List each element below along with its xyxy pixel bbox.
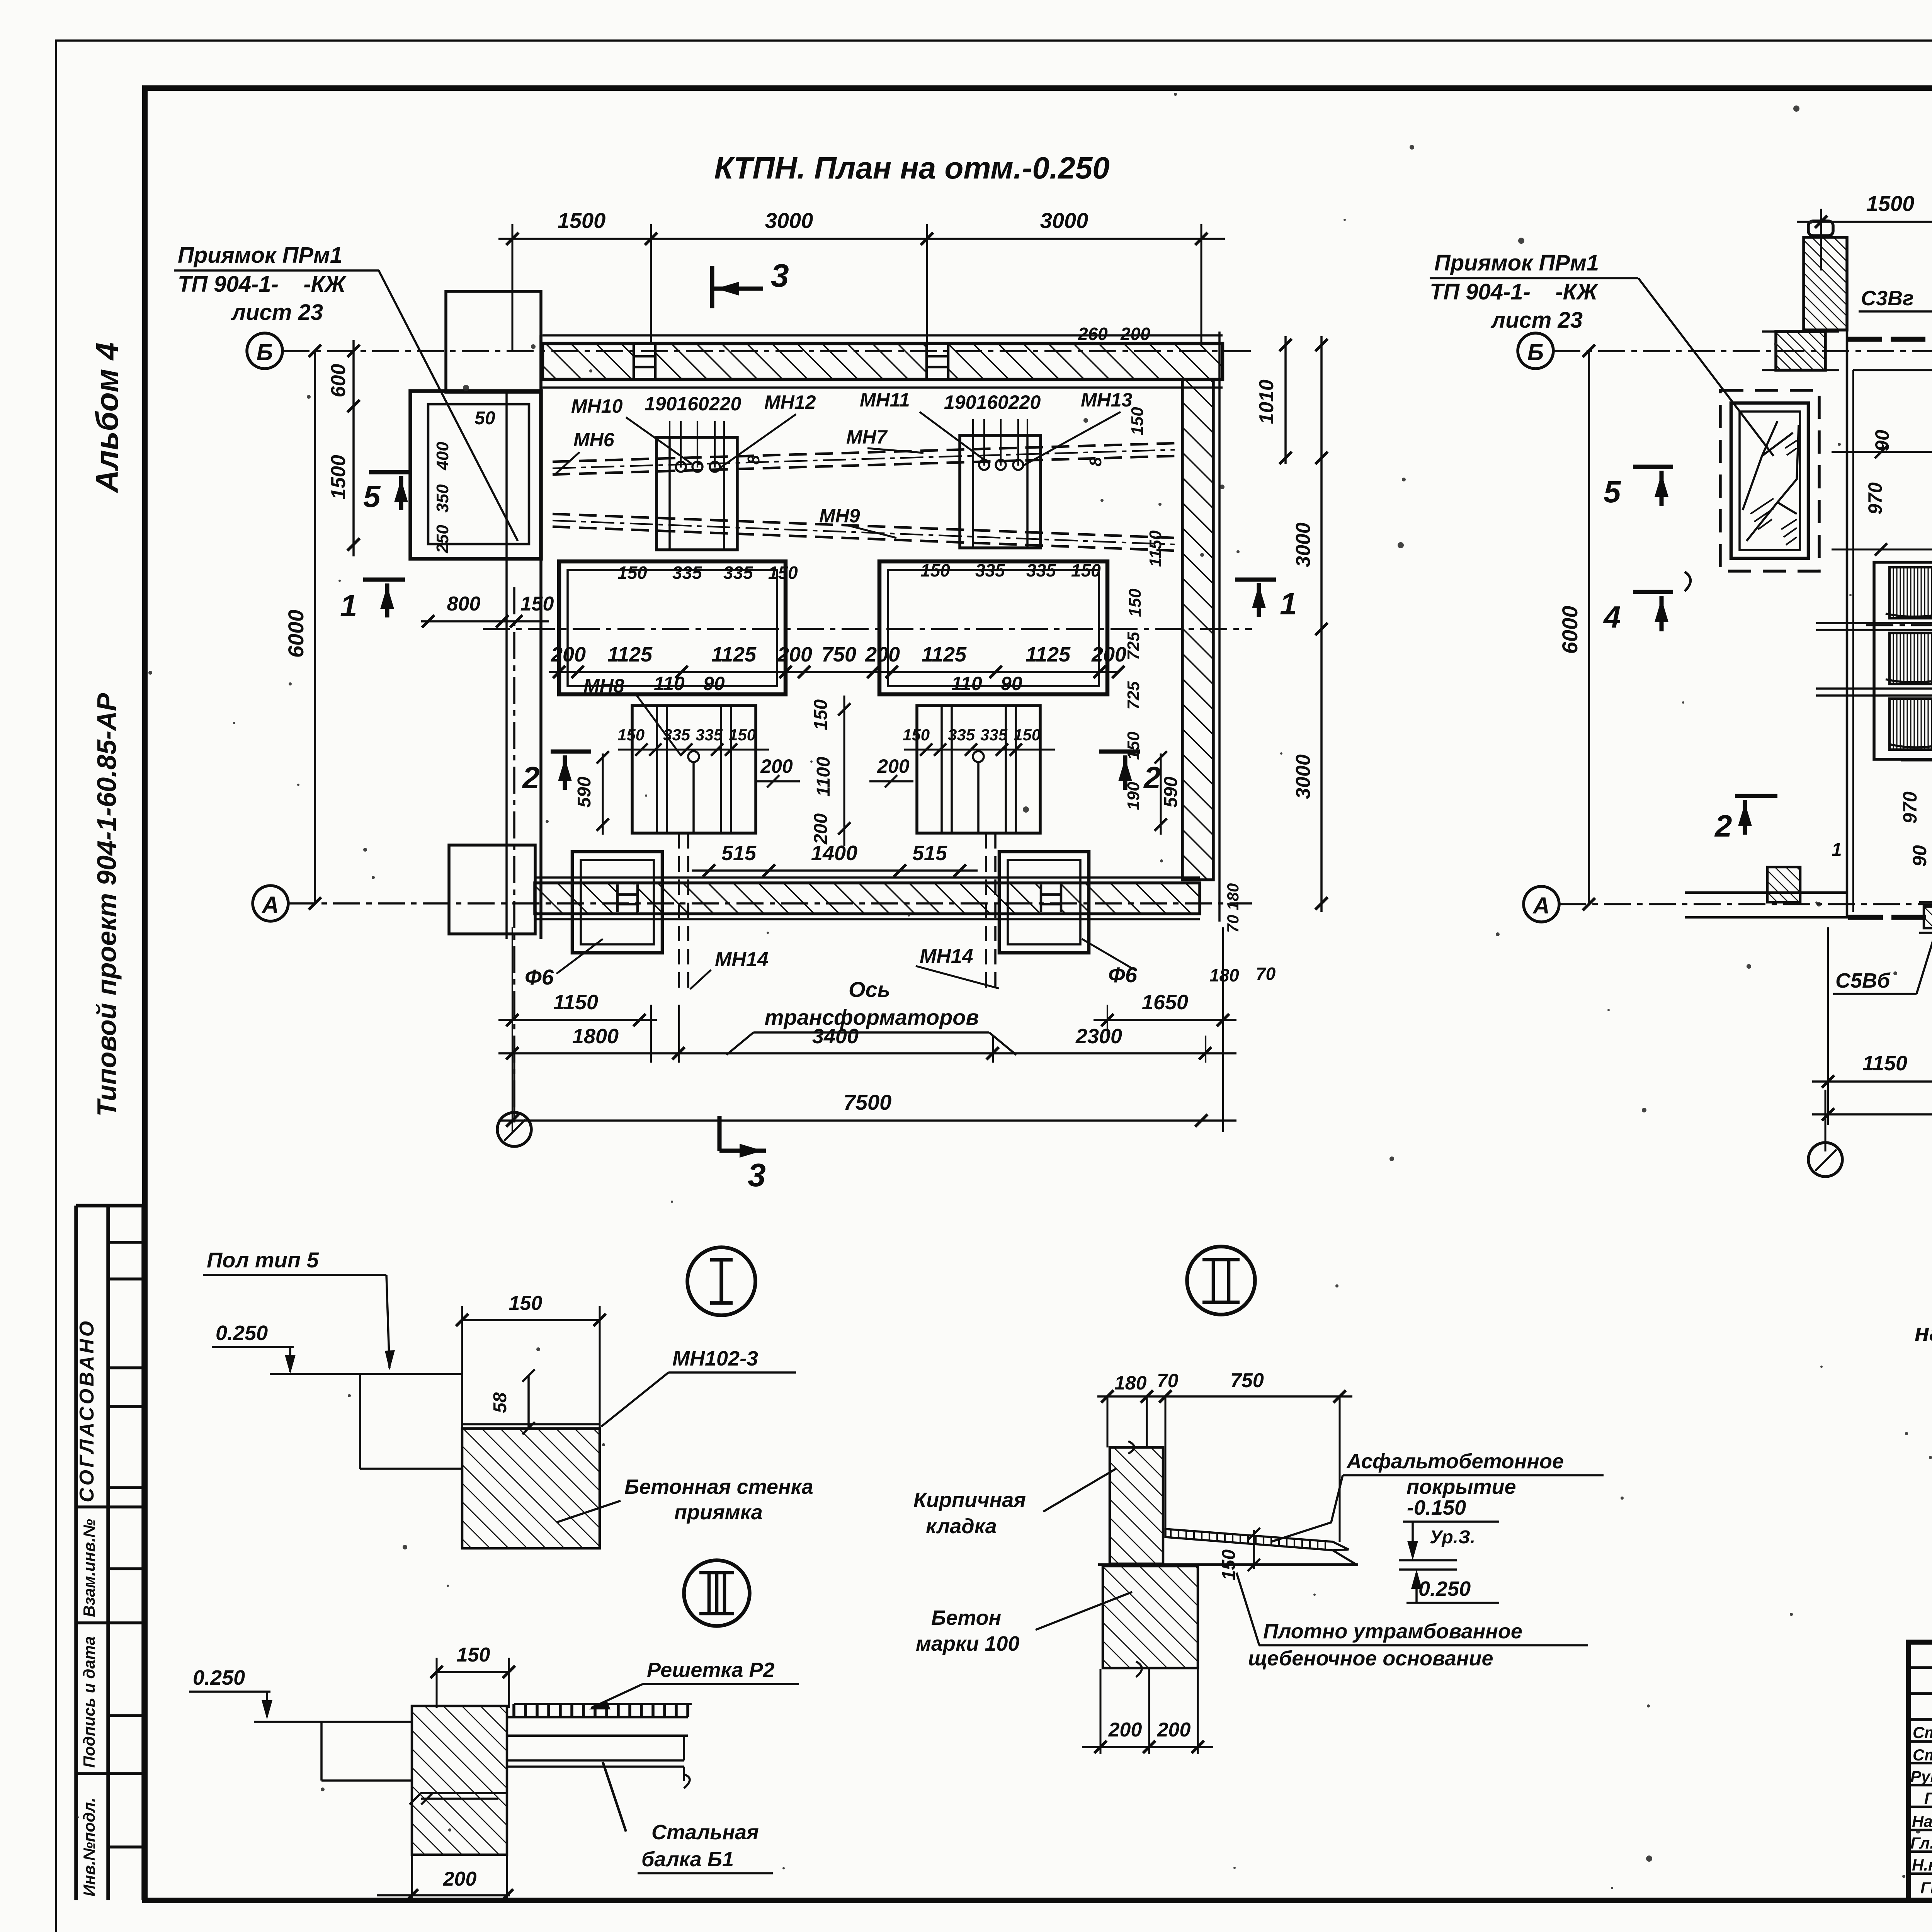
axis Б circle and line <box>247 333 282 369</box>
svg-text:190160220: 190160220 <box>645 393 741 415</box>
svg-text:800: 800 <box>447 593 481 615</box>
svg-text:150: 150 <box>1128 407 1147 435</box>
svg-text:50: 50 <box>474 408 495 429</box>
right wall hatched band <box>1182 379 1213 880</box>
svg-text:8: 8 <box>1086 457 1105 466</box>
top wall hatched band <box>543 344 1223 379</box>
svg-text:1500: 1500 <box>558 208 606 233</box>
svg-text:марки 100: марки 100 <box>916 1632 1019 1655</box>
right side dim chain 1010 <box>1284 336 1287 464</box>
detail I floor level line <box>270 1373 462 1375</box>
svg-text:6000: 6000 <box>284 610 308 658</box>
svg-text:3000: 3000 <box>1292 754 1315 799</box>
svg-text:110: 110 <box>951 673 982 694</box>
svg-text:58: 58 <box>490 1392 510 1413</box>
detail I dim 150 <box>462 1319 600 1321</box>
svg-text:2: 2 <box>1143 760 1161 795</box>
svg-text:1: 1 <box>1280 587 1297 621</box>
svg-text:150: 150 <box>1126 588 1145 617</box>
detail II foundation hatched <box>1103 1566 1198 1668</box>
detail II dims 200 200 <box>1082 1746 1213 1748</box>
bottom dims 1150/4700/1650 <box>1812 1080 1932 1083</box>
svg-text:1150: 1150 <box>553 991 598 1014</box>
grating group 1 outline <box>1874 562 1932 759</box>
detail III dim 150 <box>437 1671 509 1673</box>
svg-text:3000: 3000 <box>1040 208 1088 233</box>
svg-text:970: 970 <box>1899 791 1921 824</box>
small vertical tick dims on frames <box>670 419 1027 468</box>
section marker 3 top <box>712 266 763 308</box>
svg-text:90: 90 <box>1871 430 1893 451</box>
detail I step lines <box>360 1374 462 1469</box>
section marker 2 left right-plan <box>1735 796 1777 835</box>
extension lines top dims <box>512 224 1201 350</box>
svg-text:Ф6: Ф6 <box>525 965 554 989</box>
svg-text:3000: 3000 <box>1292 522 1315 567</box>
svg-text:КТПН. План на отм.-0.250: КТПН. План на отм.-0.250 <box>714 151 1109 185</box>
left margin stamp table bottom (Взам.инв., Подпись и дата, Инв.подл.) <box>76 1569 143 1847</box>
bottom left block rect <box>449 845 535 934</box>
svg-text:-0.150: -0.150 <box>1407 1496 1466 1519</box>
axis Б right plan <box>1518 333 1553 369</box>
svg-text:Стальная: Стальная <box>651 1821 759 1844</box>
svg-text:А: А <box>1532 893 1549 918</box>
svg-text:70: 70 <box>1157 1370 1179 1391</box>
dim row 515/1400/515 <box>692 869 978 872</box>
svg-text:2: 2 <box>1714 809 1732 843</box>
section marker 2 right <box>1099 752 1140 790</box>
detail I circle <box>687 1247 755 1315</box>
bottom dim 7500 right plan <box>1812 1113 1932 1116</box>
axis А circle and line <box>253 886 288 921</box>
fence bottom dashed <box>1848 915 1932 920</box>
svg-text:90: 90 <box>1909 845 1930 867</box>
section marker 3 bottom <box>719 1116 766 1151</box>
wall joint marks top wall <box>634 345 655 378</box>
detail III top line <box>254 1721 412 1723</box>
section marker 5 right plan left side <box>1633 467 1673 506</box>
dim 90 and 970 left <box>1832 451 1932 453</box>
grating panels group1 <box>1889 567 1932 618</box>
svg-text:Бетон: Бетон <box>931 1606 1001 1629</box>
svg-text:МН14: МН14 <box>715 948 769 971</box>
svg-text:1125: 1125 <box>607 643 653 666</box>
svg-text:лист 23: лист 23 <box>1490 308 1583 333</box>
lower rails МН9 dashed <box>553 514 1175 551</box>
wall joint marks bottom wall <box>617 884 638 912</box>
svg-text:725: 725 <box>1124 632 1143 660</box>
detail II asphalt wedge <box>1165 1529 1349 1550</box>
svg-text:515: 515 <box>721 842 757 865</box>
svg-text:200: 200 <box>1091 643 1126 666</box>
svg-text:Ст.инж.: Ст.инж. <box>1913 1746 1932 1764</box>
fence posts bottom <box>1924 906 1932 928</box>
svg-text:200: 200 <box>811 813 831 845</box>
svg-text:балка Б1: балка Б1 <box>641 1848 734 1871</box>
extension verticals bottom right plan <box>1828 927 1932 1125</box>
svg-text:180: 180 <box>1114 1372 1147 1394</box>
svg-text:лист 23: лист 23 <box>231 300 323 325</box>
svg-text:1150: 1150 <box>1146 530 1165 567</box>
section marker 1 left <box>363 580 405 617</box>
svg-text:335: 335 <box>723 563 753 583</box>
svg-text:кладка: кладка <box>926 1515 997 1538</box>
bottom dim row2 1800/3400/2300 <box>498 1052 1236 1054</box>
svg-text:Ур.З.: Ур.З. <box>1430 1527 1475 1548</box>
svg-text:ГАП: ГАП <box>1924 1789 1932 1807</box>
detail II ground line <box>1098 1563 1358 1566</box>
svg-text:Плотно утрамбованное: Плотно утрамбованное <box>1263 1620 1522 1643</box>
svg-text:1400: 1400 <box>811 842 857 865</box>
block Ф6 right <box>999 852 1089 953</box>
svg-text:150: 150 <box>903 726 930 744</box>
svg-text:150: 150 <box>1219 1549 1239 1580</box>
svg-text:Н.контр.: Н.контр. <box>1912 1856 1932 1874</box>
svg-text:Кирпичная: Кирпичная <box>913 1488 1026 1512</box>
dim 800/150 <box>421 620 549 622</box>
section marker 4 right plan left side <box>1633 592 1673 631</box>
svg-text:1125: 1125 <box>1026 643 1071 666</box>
svg-text:МН12: МН12 <box>764 391 816 413</box>
svg-text:1150: 1150 <box>1862 1052 1907 1075</box>
svg-text:Типовой проект 904-1-60.85-А: Типовой проект 904-1-60.85-АР <box>92 693 122 1117</box>
svg-text:Приямок ПРм1: Приямок ПРм1 <box>178 243 342 268</box>
svg-text:1500: 1500 <box>327 455 350 500</box>
svg-text:200: 200 <box>877 755 910 777</box>
svg-text:335: 335 <box>1026 560 1056 580</box>
svg-text:Ст.техн.: Ст.техн. <box>1913 1723 1932 1742</box>
svg-text:1125: 1125 <box>922 643 967 666</box>
dim 6000 vertical right plan <box>1588 351 1590 904</box>
svg-text:С3Вг: С3Вг <box>1861 287 1914 310</box>
svg-text:МН8: МН8 <box>583 675 624 697</box>
svg-text:МН13: МН13 <box>1081 389 1133 411</box>
svg-text:Б: Б <box>257 339 273 365</box>
svg-text:150: 150 <box>1014 726 1041 744</box>
building top inner line <box>1853 369 1932 371</box>
svg-text:покрытие: покрытие <box>1406 1475 1516 1498</box>
svg-text:335: 335 <box>948 726 975 744</box>
svg-text:70: 70 <box>1256 964 1276 984</box>
svg-text:Приямок ПРм1: Приямок ПРм1 <box>1434 250 1599 276</box>
svg-text:600: 600 <box>327 364 350 398</box>
svg-text:3: 3 <box>748 1157 766 1193</box>
svg-text:400: 400 <box>433 442 452 471</box>
svg-text:200: 200 <box>777 643 812 666</box>
svg-text:СОГЛАСОВАНО: СОГЛАСОВАНО <box>76 1319 98 1502</box>
svg-text:190160220: 190160220 <box>944 391 1041 413</box>
svg-text:150: 150 <box>1071 560 1101 580</box>
pit window solid frames <box>1731 403 1808 558</box>
svg-text:6000: 6000 <box>1558 606 1582 654</box>
svg-text:190: 190 <box>1124 782 1143 810</box>
svg-text:5: 5 <box>363 479 381 514</box>
detail III grating comb <box>507 1717 688 1736</box>
axis А right plan <box>1524 886 1559 922</box>
svg-text:МН11: МН11 <box>860 389 910 411</box>
bottom axis circle right plan <box>1808 1143 1842 1177</box>
svg-text:Альбом 4: Альбом 4 <box>90 342 125 493</box>
svg-text:150: 150 <box>811 699 831 730</box>
svg-text:970: 970 <box>1864 482 1886 515</box>
building left wall lines <box>539 335 543 939</box>
svg-text:Бетонная стенка: Бетонная стенка <box>624 1475 813 1498</box>
section marker 2 left <box>551 752 591 790</box>
svg-text:ТП 904-1- -КЖ: ТП 904-1- -КЖ <box>1430 279 1599 304</box>
svg-text:щебеночное основание: щебеночное основание <box>1248 1647 1493 1670</box>
svg-text:350: 350 <box>433 484 452 513</box>
svg-text:0.250: 0.250 <box>1418 1577 1471 1600</box>
signature rows <box>1908 1742 1932 1874</box>
svg-text:150: 150 <box>520 593 554 615</box>
right plan top dimension line 1500/3000/3000 <box>1797 221 1932 223</box>
svg-text:МН6: МН6 <box>573 429 615 451</box>
svg-text:180: 180 <box>1209 965 1239 985</box>
dim 600/1500 vertical <box>352 340 355 556</box>
title block upper rows left part <box>1908 1668 1932 1719</box>
svg-text:4: 4 <box>1603 600 1621 634</box>
anchor frame upper right <box>960 435 1041 548</box>
svg-text:750: 750 <box>821 643 856 666</box>
svg-text:наблюдением электромонтажнико: наблюдением электромонтажников . <box>1915 1318 1932 1346</box>
detail I concrete block hatched <box>462 1429 600 1548</box>
detail III dim 200 <box>377 1894 510 1896</box>
svg-text:335: 335 <box>980 726 1008 744</box>
svg-text:Рук.гр.: Рук.гр. <box>1910 1767 1932 1786</box>
svg-text:ГПП: ГПП <box>1920 1879 1932 1897</box>
svg-text:110: 110 <box>654 673 685 694</box>
svg-text:Подпись и дата: Подпись и дата <box>80 1636 98 1768</box>
transformer pit rect left <box>559 561 786 694</box>
svg-text:90: 90 <box>703 673 725 694</box>
svg-text:Ф6: Ф6 <box>1108 963 1138 987</box>
title block outer <box>1908 1642 1932 1900</box>
svg-text:200: 200 <box>551 643 586 666</box>
section marker 1 right <box>1235 580 1276 617</box>
section marker 5 left <box>369 472 412 510</box>
building bottom corner lines <box>1685 893 1848 917</box>
svg-text:1800: 1800 <box>572 1025 619 1048</box>
extension verticals bottom dims <box>512 927 1223 1132</box>
svg-text:1125: 1125 <box>711 643 757 666</box>
left margin stamp table top (Согласовано) <box>76 1206 143 1900</box>
building wall left line <box>1846 330 1849 917</box>
svg-text:200: 200 <box>1120 324 1150 344</box>
chimney foundation block <box>1776 332 1825 370</box>
block Ф6 left <box>572 852 662 953</box>
svg-text:ТП 904-1- -КЖ: ТП 904-1- -КЖ <box>178 272 347 297</box>
svg-text:С5Вб: С5Вб <box>1835 969 1891 992</box>
svg-text:1: 1 <box>1832 840 1842 860</box>
dim 6000 left vertical <box>314 351 316 903</box>
lower anchor frame right <box>917 706 1040 833</box>
bottom wall hatched band <box>535 883 1200 914</box>
svg-text:Асфальтобетонное: Асфальтобетонное <box>1346 1450 1564 1473</box>
detail II brick wall hatched <box>1110 1447 1163 1564</box>
dims 150/335/335/150 lower frames <box>618 749 769 751</box>
pit Прм1 rectangles <box>410 391 541 559</box>
svg-text:150: 150 <box>729 726 756 744</box>
svg-text:5: 5 <box>1604 474 1621 509</box>
svg-text:150: 150 <box>617 563 647 583</box>
svg-text:150: 150 <box>457 1644 490 1666</box>
fence top thick dashed <box>1847 337 1932 342</box>
svg-text:515: 515 <box>912 842 947 865</box>
axis 1 mid dash line <box>483 628 1252 630</box>
svg-text:Б: Б <box>1527 339 1544 365</box>
svg-text:260: 260 <box>1078 324 1108 344</box>
svg-text:200: 200 <box>1108 1719 1142 1741</box>
svg-text:335: 335 <box>672 563 702 583</box>
svg-text:335: 335 <box>663 726 690 744</box>
leaders МН labels <box>555 412 1121 538</box>
extension verticals top <box>1821 209 1932 344</box>
svg-text:0.250: 0.250 <box>193 1666 245 1689</box>
svg-text:1: 1 <box>340 588 357 623</box>
svg-text:Пол тип 5: Пол тип 5 <box>207 1248 319 1272</box>
svg-text:Нач.отд.: Нач.отд. <box>1912 1812 1932 1830</box>
svg-text:2: 2 <box>522 760 540 795</box>
svg-text:150: 150 <box>768 563 798 583</box>
top left vent rect <box>446 291 541 392</box>
leader to pit <box>379 270 518 541</box>
bottom dim row3 7500 <box>498 1119 1236 1122</box>
svg-text:335: 335 <box>975 560 1005 580</box>
svg-text:МН14: МН14 <box>920 945 973 968</box>
svg-text:7500: 7500 <box>844 1090 892 1114</box>
svg-text:Взам.инв.№: Взам.инв.№ <box>80 1519 98 1617</box>
svg-text:3000: 3000 <box>765 208 813 233</box>
right side dim chain 3000/3000 <box>1320 336 1323 912</box>
detail III beam lines <box>507 1736 690 1788</box>
svg-text:8: 8 <box>744 455 763 464</box>
svg-text:0.250: 0.250 <box>216 1321 268 1345</box>
svg-text:200: 200 <box>443 1868 477 1890</box>
vertical axis with bottom circle <box>513 587 515 1112</box>
МН14 dashed channels <box>679 833 688 994</box>
svg-text:200: 200 <box>1157 1719 1191 1741</box>
svg-text:Решетка Р2: Решетка Р2 <box>647 1658 775 1682</box>
dim 590 right rotated <box>1160 753 1162 835</box>
svg-text:150: 150 <box>617 726 645 744</box>
svg-text:трансформаторов: трансформаторов <box>765 1005 979 1029</box>
lower anchor frame left <box>632 706 756 833</box>
svg-text:70 180: 70 180 <box>1224 883 1242 933</box>
svg-text:МН7: МН7 <box>846 426 888 448</box>
svg-text:150: 150 <box>1124 731 1143 760</box>
detail III circle <box>684 1560 750 1626</box>
upper rails МН6-МН7 dashed <box>553 443 1175 474</box>
svg-text:МН10: МН10 <box>571 395 623 417</box>
svg-text:1010: 1010 <box>1255 379 1278 424</box>
svg-text:1500: 1500 <box>1866 191 1915 216</box>
svg-text:Ось: Ось <box>849 977 890 1002</box>
anchor frame upper left <box>656 437 737 550</box>
svg-text:3: 3 <box>771 257 789 294</box>
svg-text:1100: 1100 <box>813 757 834 797</box>
svg-text:725: 725 <box>1124 681 1143 710</box>
svg-text:335: 335 <box>696 726 723 744</box>
svg-text:2300: 2300 <box>1075 1025 1122 1048</box>
mid dimension row 200/1125/1125/200/750/200/1125/1125/200 <box>549 671 1119 673</box>
svg-text:590: 590 <box>574 777 595 808</box>
svg-text:200: 200 <box>865 643 900 666</box>
axis 1 mid dash right plan <box>1866 624 1932 626</box>
svg-text:90: 90 <box>1001 673 1022 694</box>
detail III step <box>321 1722 412 1781</box>
chimney hatched column top left <box>1804 237 1847 330</box>
beams Б1 group1 <box>1816 623 1932 696</box>
svg-text:МН9: МН9 <box>819 505 860 527</box>
transformer pit rect right <box>879 561 1107 694</box>
dim 590 left rotated <box>602 753 604 835</box>
svg-text:Инв.№подл.: Инв.№подл. <box>80 1798 98 1896</box>
svg-text:А: А <box>261 892 279 918</box>
pit window dashed outer <box>1720 390 1819 571</box>
svg-text:Гл.спец.О: Гл.спец.О <box>1910 1834 1932 1852</box>
detail III wall hatched <box>412 1706 507 1855</box>
svg-text:150: 150 <box>509 1292 543 1315</box>
detail II circle <box>1187 1247 1255 1315</box>
left lower hatched block <box>1767 867 1800 902</box>
svg-text:250: 250 <box>433 525 452 554</box>
svg-text:150: 150 <box>920 560 950 580</box>
svg-text:750: 750 <box>1230 1369 1264 1392</box>
svg-text:МН102-3: МН102-3 <box>672 1347 758 1370</box>
pit window cracked glass lines <box>1743 421 1799 541</box>
svg-text:приямка: приямка <box>674 1501 763 1524</box>
svg-text:3400: 3400 <box>812 1025 859 1048</box>
bottom dim row1 1150 / 1650 <box>498 1019 657 1021</box>
svg-text:1650: 1650 <box>1142 991 1188 1014</box>
left plan top dimension line 1500/3000/3000 <box>498 238 1225 240</box>
svg-text:200: 200 <box>760 755 793 777</box>
svg-text:590: 590 <box>1161 777 1181 808</box>
